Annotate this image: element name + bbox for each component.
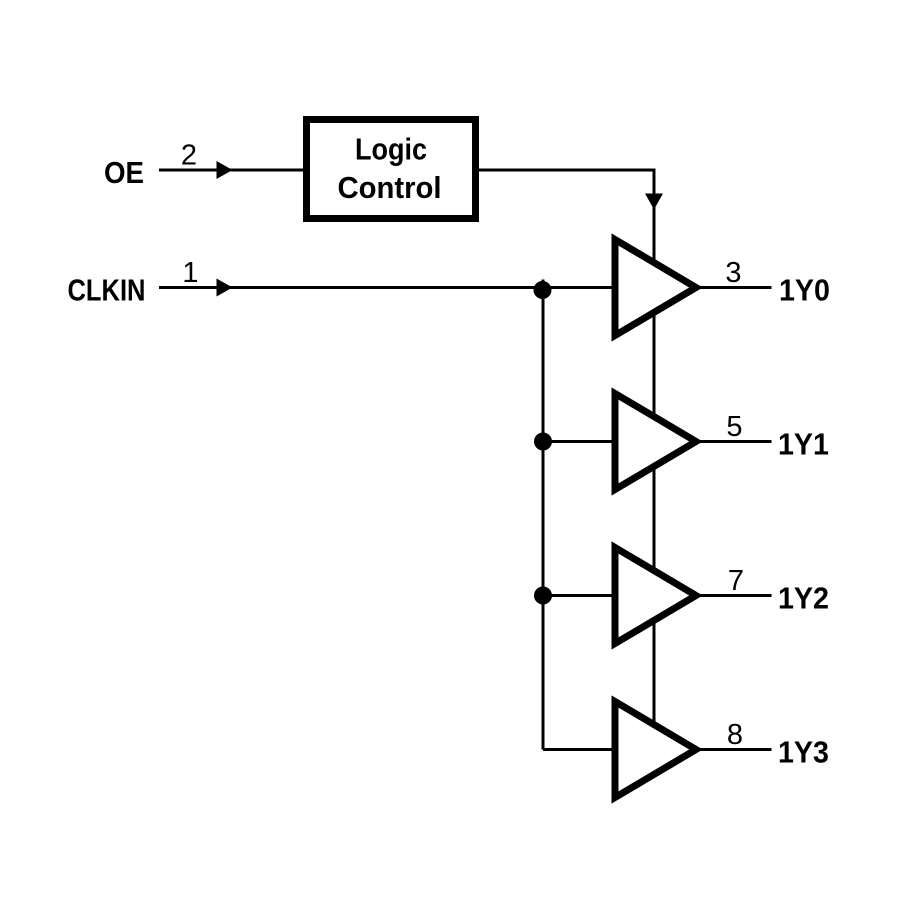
wire CLKIN input <box>159 286 612 289</box>
svg-text:1Y0: 1Y0 <box>779 273 830 308</box>
wire output 1Y2 <box>700 594 772 597</box>
buffer U2D <box>615 702 696 798</box>
svg-text:1: 1 <box>182 257 198 289</box>
arrowhead OE input <box>217 161 233 179</box>
wire OE input <box>159 169 303 172</box>
svg-text:1Y3: 1Y3 <box>778 735 829 770</box>
svg-text:1Y1: 1Y1 <box>778 427 829 462</box>
wire logic control output to enable rail <box>479 169 656 172</box>
wire output 1Y3 <box>700 748 772 751</box>
svg-text:2: 2 <box>181 140 197 172</box>
svg-text:8: 8 <box>727 719 743 751</box>
svg-text:5: 5 <box>726 411 742 443</box>
logic control block U1 <box>307 120 476 219</box>
junction node buffer 3 <box>534 587 552 605</box>
junction node buffer 2 <box>534 433 552 451</box>
svg-text:Logic: Logic <box>355 132 427 167</box>
buffer U2B <box>615 394 696 490</box>
svg-text:CLKIN: CLKIN <box>68 273 146 308</box>
svg-text:3: 3 <box>725 257 741 289</box>
junction node buffer 1 <box>534 281 552 299</box>
wire output 1Y1 <box>700 440 772 443</box>
buffer U2A <box>615 240 696 336</box>
arrowhead enable rail <box>645 194 663 210</box>
wire buffer 4 input stub <box>543 748 612 751</box>
wire enable rail vertical <box>653 169 656 751</box>
svg-text:1Y2: 1Y2 <box>778 581 829 616</box>
wire buffer 3 input stub <box>543 594 612 597</box>
svg-text:7: 7 <box>728 565 744 597</box>
wire buffer 2 input stub <box>543 440 612 443</box>
arrowhead CLKIN input <box>217 279 233 297</box>
wire CLKIN trunk vertical <box>542 280 545 750</box>
svg-text:OE: OE <box>104 155 144 190</box>
svg-text:Control: Control <box>338 170 442 205</box>
wire output 1Y0 <box>700 286 772 289</box>
buffer U2C <box>615 548 696 644</box>
